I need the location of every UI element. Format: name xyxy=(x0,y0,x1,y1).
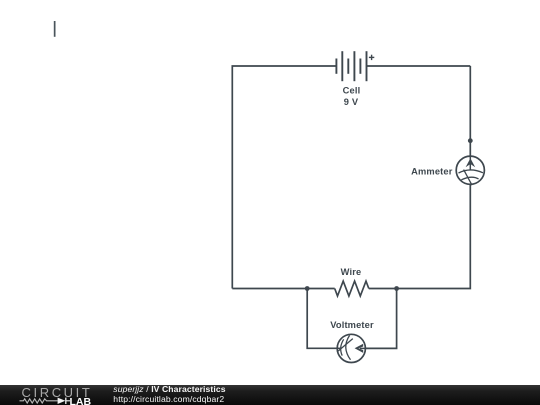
svg-text:LAB: LAB xyxy=(70,396,92,405)
cell V1 plates xyxy=(336,51,366,81)
wire right lower (ammeter to corner) xyxy=(397,184,471,288)
wire bottom left segment (corner to left dot) xyxy=(232,288,307,290)
wire top-right (cell to corner) xyxy=(367,65,471,67)
svg-text:superjjz / IV Characteristics: superjjz / IV Characteristics xyxy=(113,385,225,394)
svg-text:Wire: Wire xyxy=(341,267,362,277)
wire voltmeter branch right xyxy=(365,289,396,349)
svg-text:Cell: Cell xyxy=(343,86,361,96)
svg-text:http://circuitlab.com/cdqbar2: http://circuitlab.com/cdqbar2 xyxy=(113,394,224,404)
CircuitLab logo diode xyxy=(58,397,66,403)
wire top-left (corner to cell) xyxy=(232,66,336,289)
wire voltmeter branch left xyxy=(307,289,337,349)
svg-text:Voltmeter: Voltmeter xyxy=(330,320,374,330)
svg-text:9 V: 9 V xyxy=(344,97,359,107)
wire right upper (corner down to ammeter) xyxy=(469,66,471,156)
resistor "Wire" zigzag xyxy=(335,281,369,296)
ammeter M1 xyxy=(456,156,484,185)
cursor mark xyxy=(54,21,56,37)
junction dot bottom left xyxy=(305,286,310,291)
junction dot bottom right xyxy=(394,286,399,291)
voltmeter M2 xyxy=(337,334,365,362)
junction dot above ammeter xyxy=(468,138,473,143)
wire bottom segment (left dot to resistor) xyxy=(307,288,335,290)
svg-text:Ammeter: Ammeter xyxy=(411,166,453,176)
wire bottom segment (right dot to resistor) xyxy=(369,288,397,290)
cell plus polarity mark xyxy=(369,55,374,60)
CircuitLab logo resistor squiggle xyxy=(20,398,58,402)
